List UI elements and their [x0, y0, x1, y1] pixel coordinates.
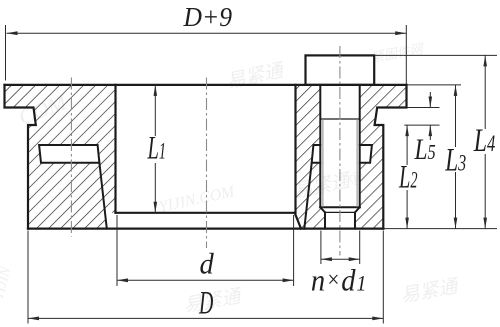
svg-text:YIJIN: YIJIN [0, 265, 14, 301]
extension top face right [407, 84, 462, 86]
dim L2 line [406, 125, 408, 229]
dim D extension right [382, 231, 384, 324]
bolt shank major left [319, 85, 321, 207]
arrow D left [28, 317, 39, 321]
centerline bolt axis [339, 46, 341, 256]
dim D+9 extension right [405, 25, 407, 84]
bolt chamfer shoulder [320, 206, 359, 208]
dim D+9 line [7, 32, 407, 34]
felt groove right, left fragment [312, 145, 321, 163]
left bore wall [114, 85, 116, 213]
bolt tip top edge [325, 211, 355, 213]
dim n×d1 extension left [320, 231, 322, 265]
felt groove left [39, 145, 99, 163]
arrow L1 bottom [154, 202, 158, 213]
hatched section: wedge between taper and bolt [304, 163, 325, 229]
bolt shank major right [359, 85, 361, 207]
dim n×d1 extension right [359, 231, 361, 265]
arrow d right [283, 278, 294, 282]
extension head top [374, 54, 497, 56]
thread end line [320, 118, 359, 120]
svg-text:紧固件网: 紧固件网 [370, 41, 426, 65]
arrow D+9 right [395, 31, 406, 35]
bolt head [306, 55, 375, 85]
bolt tip chamfer right [355, 207, 360, 212]
right recess chamfer [295, 213, 301, 229]
centerlines [71, 46, 340, 256]
svg-text:易紧通: 易紧通 [182, 286, 245, 317]
dim D+9 extension left [5, 25, 7, 81]
bolt tip left [324, 212, 326, 228]
bottom face line [28, 228, 383, 230]
right inner taper [304, 163, 311, 229]
arrow L1 top [154, 85, 158, 96]
arrow n×d1 right [349, 257, 360, 261]
svg-text:L1: L1 [147, 130, 166, 166]
arrow L5 upper [429, 97, 433, 108]
svg-text:D: D [198, 285, 213, 321]
thread minor lines [323, 119, 357, 207]
arrow D+9 left [7, 31, 18, 35]
arrow d left [117, 278, 128, 282]
dim d extension left [116, 215, 118, 286]
arrow L3 bottom [454, 218, 458, 229]
watermark [0, 41, 462, 317]
arrow L3 top [454, 85, 458, 96]
extension flange bottom right [407, 107, 440, 109]
dim D line [28, 317, 383, 319]
centerline bolt circle left [70, 78, 72, 237]
left outer profile [5, 85, 36, 229]
svg-text:n×d1: n×d1 [311, 264, 368, 298]
arrow L4 top [483, 55, 487, 66]
bolt tip chamfer left [320, 207, 325, 212]
dim L3 line [455, 85, 457, 229]
arrow n×d1 left [321, 257, 332, 261]
arrow L4 bottom [483, 218, 487, 229]
dim n×d1 line [321, 258, 360, 260]
dim D extension left [27, 231, 29, 324]
bolt tip right [354, 212, 356, 228]
centerline main axis [206, 78, 208, 249]
arrow D right [372, 317, 383, 321]
arrow L2 bottom [405, 218, 409, 229]
svg-text:L5: L5 [414, 132, 436, 165]
arrow L2 top [405, 125, 409, 136]
svg-text:D+9: D+9 [183, 1, 232, 32]
hatched section: right body right of bolt [355, 85, 407, 229]
dim d line [117, 279, 294, 281]
dim L4 line [484, 55, 486, 228]
extension bottom face right [383, 228, 497, 230]
extension groove step right [404, 124, 439, 126]
arrow L5 lower [429, 125, 433, 136]
right outer profile [375, 85, 407, 229]
dim L1 line [154, 85, 156, 213]
felt groove right, right fragment [360, 145, 372, 163]
top face line [5, 84, 407, 86]
dim L5 arrows stems [429, 92, 431, 140]
recess face line [116, 212, 295, 214]
right bore wall [294, 85, 296, 213]
dim d extension right [293, 215, 295, 286]
left inner taper [99, 163, 106, 229]
hatched section: left body [5, 85, 116, 229]
svg-text:L3: L3 [444, 143, 466, 179]
svg-text:易紧通: 易紧通 [225, 60, 288, 93]
svg-text:YIJIN.COM: YIJIN.COM [157, 183, 237, 216]
hatched section: right body left of bolt [295, 85, 321, 229]
svg-text:易紧通: 易紧通 [399, 276, 462, 307]
svg-text:d: d [200, 248, 215, 281]
svg-text:L4: L4 [473, 122, 495, 159]
